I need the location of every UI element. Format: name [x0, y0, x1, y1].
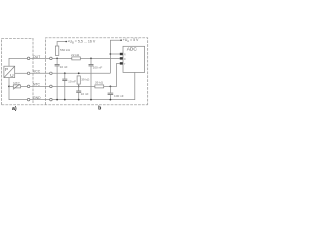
terminal GND sensor: [27, 98, 30, 101]
transducer U1 (P/U): [4, 66, 15, 77]
wire R1 top to supply: [57, 42, 66, 47]
wire GND rail: [52, 72, 135, 99]
ADC box U2: [123, 46, 145, 72]
sensor dashed box: [2, 38, 34, 105]
wire R2 to ADC pin2: [80, 57, 120, 59]
node sensor NTC junction: [8, 86, 10, 88]
svg-text:10 nF: 10 nF: [81, 92, 89, 96]
svg-text:D: D: [124, 57, 126, 61]
wire C4 vertical: [78, 92, 80, 99]
wire R4 to pin3 corner: [104, 63, 120, 86]
node gnd C1: [56, 99, 58, 101]
terminal NTC sensor: [27, 85, 30, 88]
wire OUT sensor side: [9, 58, 27, 66]
wire C2 vertical: [90, 58, 92, 99]
ECU dashed box: [46, 38, 148, 105]
svg-text:10 nF: 10 nF: [68, 79, 76, 83]
capacitor C5: [108, 93, 114, 94]
node R1 bottom: [56, 58, 58, 60]
node N: [110, 86, 112, 88]
svg-text:OUT: OUT: [33, 55, 40, 59]
svg-text:R: R: [124, 52, 126, 56]
svg-text:39 kΩ: 39 kΩ: [81, 78, 90, 82]
svg-text:100 nF: 100 nF: [93, 65, 103, 69]
wire NTC gap: [30, 85, 50, 87]
wire NTC inside ECU: [52, 85, 95, 87]
wire NTC to terminal: [21, 85, 28, 87]
wire OUT inside ECU: [52, 57, 72, 59]
node gnd C5: [110, 99, 112, 101]
resistor R1 pull-up: [55, 46, 58, 55]
terminal OUT sensor: [27, 57, 30, 60]
pin pad 2: [120, 57, 123, 59]
svg-text:39 kΩ: 39 kΩ: [95, 81, 104, 85]
wire C1 vertical: [56, 58, 58, 99]
pin pad 3: [120, 62, 123, 64]
svg-text:ADC: ADC: [127, 47, 138, 53]
thermistor NTC: [13, 84, 21, 89]
resistor R2 series 22k: [72, 57, 81, 60]
pin pad 1: [120, 53, 123, 55]
resistor R4 series 39k: [95, 85, 104, 88]
wire pin1: [110, 53, 120, 55]
node gnd C3: [64, 99, 66, 101]
terminal GND ECU: [50, 98, 53, 101]
svg-text:NTC: NTC: [13, 81, 20, 85]
node NTC line junction: [78, 86, 80, 88]
wire R3 bottom: [78, 84, 80, 91]
svg-text:NTC: NTC: [33, 83, 41, 87]
wire +UA vertical: [110, 40, 121, 73]
svg-text:10 nF: 10 nF: [60, 65, 68, 69]
svg-text:T: T: [124, 62, 126, 66]
svg-text:GND: GND: [33, 96, 41, 100]
node R3 top: [78, 72, 80, 74]
svg-text:100 nF: 100 nF: [114, 94, 124, 98]
resistor R3 NTC pull-up: [77, 76, 80, 84]
terminal VCC sensor: [27, 72, 30, 75]
node pin1 tee: [110, 53, 112, 55]
svg-text:+UB = 5,5 ... 16 V: +UB = 5,5 ... 16 V: [67, 40, 95, 45]
node gnd C4: [78, 99, 80, 101]
svg-text:560 kΩ: 560 kΩ: [60, 48, 71, 52]
wire OUT gap: [30, 57, 50, 59]
wire VCC inside ECU: [52, 72, 110, 74]
terminal OUT ECU: [50, 57, 53, 60]
svg-text:P: P: [5, 67, 8, 73]
sensor internal gnd wire: [9, 78, 27, 100]
svg-text:a): a): [12, 106, 17, 112]
capacitor C4: [76, 91, 81, 92]
supply terminal UA: [120, 39, 122, 41]
svg-text:+UA = 5 V: +UA = 5 V: [123, 38, 139, 43]
supply terminal UB: [65, 41, 67, 43]
terminal VCC ECU: [50, 72, 53, 75]
wire VCC sensor side: [15, 72, 28, 74]
shared bottom dashed line: [2, 104, 148, 106]
capacitor C1 (OUT node): [55, 65, 60, 66]
capacitor C3: [62, 79, 67, 80]
wire NTC branch: [9, 85, 13, 87]
wire C5 vertical: [109, 86, 111, 99]
wire VCC gap: [30, 72, 50, 74]
svg-text:b: b: [98, 106, 101, 112]
wire GND gap: [30, 99, 50, 101]
capacitor C2: [89, 65, 94, 66]
node C2 top: [90, 58, 92, 60]
node C3 top: [64, 72, 66, 74]
svg-text:U: U: [10, 73, 14, 79]
svg-text:VCC: VCC: [33, 69, 41, 73]
terminal NTC ECU: [50, 85, 53, 88]
node gnd C2: [90, 99, 92, 101]
svg-text:22 kΩ: 22 kΩ: [71, 53, 80, 57]
wire C3 vertical: [64, 73, 66, 99]
